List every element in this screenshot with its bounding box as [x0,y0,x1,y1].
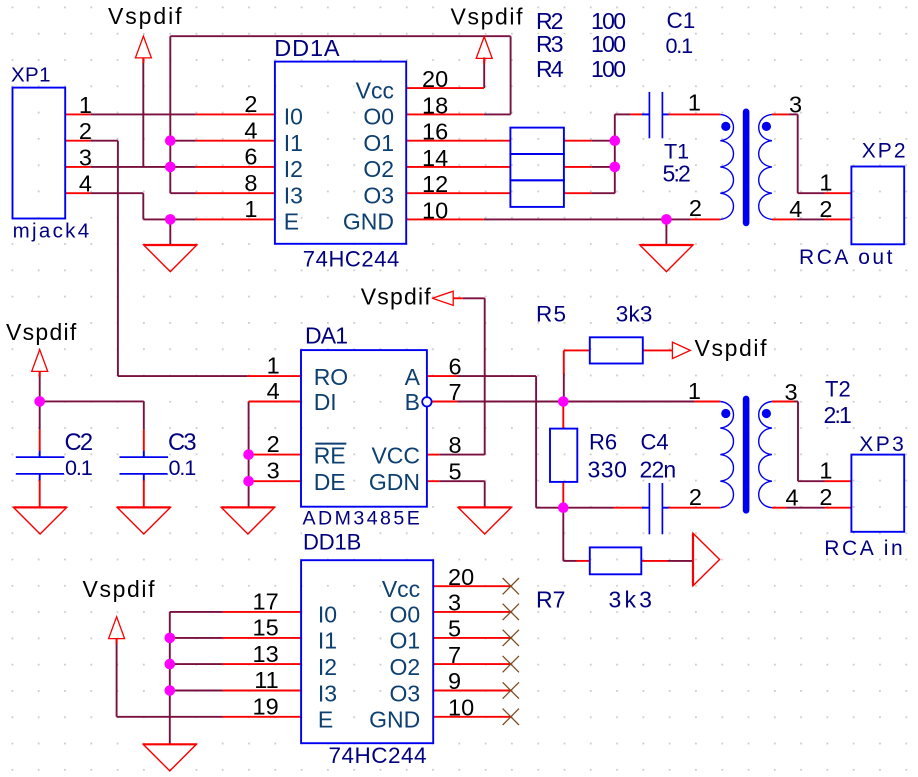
svg-text:22n: 22n [640,457,677,483]
svg-text:B: B [405,389,420,415]
svg-text:1: 1 [79,92,92,118]
svg-text:XP3: XP3 [859,433,904,456]
svg-text:ADM3485E: ADM3485E [303,507,420,529]
svg-text:C2: C2 [65,430,94,456]
svg-text:10: 10 [448,695,474,721]
svg-text:XP1: XP1 [11,63,51,86]
svg-text:I2: I2 [284,156,303,182]
svg-text:4: 4 [244,117,257,143]
svg-text:13: 13 [253,641,279,667]
svg-text:O3: O3 [363,182,394,208]
svg-text:C3: C3 [168,430,197,456]
svg-text:3: 3 [785,379,798,405]
svg-text:1: 1 [267,353,280,379]
svg-text:0.1: 0.1 [65,455,93,480]
svg-text:Vspdif: Vspdif [361,283,432,309]
svg-text:RCA out: RCA out [799,246,893,269]
svg-text:6: 6 [244,144,257,170]
svg-text:7: 7 [448,642,461,668]
svg-text:6: 6 [449,353,462,379]
svg-text:4: 4 [786,485,799,511]
svg-text:8: 8 [244,170,257,196]
svg-text:O1: O1 [363,130,394,156]
svg-text:R6: R6 [589,429,617,454]
svg-text:DE: DE [314,469,346,495]
svg-text:5:2: 5:2 [663,161,691,187]
svg-text:C1: C1 [667,8,696,33]
svg-text:19: 19 [253,694,279,720]
svg-text:R5: R5 [536,301,566,326]
svg-text:100: 100 [591,56,626,82]
svg-text:74HC244: 74HC244 [329,743,427,768]
svg-text:330: 330 [588,457,627,483]
svg-text:I2: I2 [318,654,337,680]
svg-text:I0: I0 [318,602,337,628]
svg-text:Vcc: Vcc [382,576,420,602]
svg-text:GDN: GDN [369,469,420,495]
svg-text:15: 15 [253,615,279,641]
svg-text:2:1: 2:1 [824,402,852,428]
svg-text:1: 1 [688,90,701,116]
svg-text:O1: O1 [390,628,421,654]
svg-text:2: 2 [689,195,702,221]
svg-text:O3: O3 [390,680,421,706]
svg-text:DA1: DA1 [305,322,348,348]
svg-text:R3: R3 [536,31,564,57]
svg-text:5: 5 [449,459,462,485]
svg-text:10: 10 [422,197,448,223]
svg-text:Vspdif: Vspdif [6,319,77,345]
svg-text:1: 1 [819,458,832,484]
svg-text:2: 2 [689,484,702,510]
svg-text:Vspdif: Vspdif [83,576,156,602]
svg-text:XP2: XP2 [862,140,906,163]
svg-text:DD1A: DD1A [274,35,340,61]
svg-text:E: E [284,209,299,235]
svg-text:Vspdif: Vspdif [695,335,768,361]
svg-text:12: 12 [422,171,448,197]
svg-text:2: 2 [819,484,832,510]
svg-text:14: 14 [422,145,448,171]
svg-text:1: 1 [244,196,257,222]
svg-text:RO: RO [314,364,349,390]
svg-text:C4: C4 [641,429,669,454]
svg-text:4: 4 [267,378,280,404]
svg-text:O0: O0 [390,602,421,628]
svg-text:3: 3 [267,458,280,484]
svg-text:74HC244: 74HC244 [303,247,400,272]
svg-text:11: 11 [254,667,278,693]
svg-text:DI: DI [314,389,337,415]
svg-text:1: 1 [688,378,701,404]
svg-text:GND: GND [369,707,420,733]
svg-text:3k3: 3k3 [616,301,653,326]
svg-text:9: 9 [448,668,461,694]
svg-text:16: 16 [422,119,448,145]
svg-text:RCA in: RCA in [824,537,903,560]
svg-text:I0: I0 [284,104,303,130]
svg-text:Vspdif: Vspdif [108,3,182,29]
svg-text:18: 18 [422,92,448,118]
svg-text:Vspdif: Vspdif [451,4,524,30]
svg-text:Vcc: Vcc [356,77,394,103]
svg-text:GND: GND [343,209,394,235]
svg-text:1: 1 [819,170,832,196]
svg-text:4: 4 [79,171,92,197]
svg-text:2: 2 [819,196,832,222]
svg-text:DD1B: DD1B [303,530,361,555]
svg-text:I1: I1 [318,628,337,654]
svg-text:T2: T2 [825,377,851,402]
svg-text:3: 3 [448,590,461,616]
svg-text:I3: I3 [284,182,303,208]
svg-text:20: 20 [422,66,448,92]
svg-text:2: 2 [244,91,257,117]
svg-text:RE: RE [314,442,346,468]
svg-text:0.1: 0.1 [666,33,694,58]
svg-text:E: E [318,707,333,733]
svg-text:3: 3 [789,91,802,117]
svg-text:5: 5 [448,616,461,642]
svg-text:2: 2 [79,118,92,144]
svg-text:8: 8 [449,432,462,458]
svg-text:20: 20 [448,564,474,590]
svg-text:A: A [405,364,421,390]
svg-text:3: 3 [79,144,92,170]
svg-text:O2: O2 [390,654,421,680]
svg-text:2: 2 [267,431,280,457]
svg-text:R4: R4 [536,56,564,82]
svg-text:I3: I3 [318,680,337,706]
svg-text:0.1: 0.1 [169,455,197,480]
svg-text:7: 7 [449,379,462,405]
svg-text:17: 17 [253,589,279,615]
svg-text:I1: I1 [284,130,303,156]
svg-text:O2: O2 [363,156,394,182]
svg-text:100: 100 [591,31,626,57]
svg-text:R7: R7 [536,587,565,613]
svg-text:3k3: 3k3 [609,587,652,613]
svg-text:VCC: VCC [371,442,420,468]
svg-text:O0: O0 [363,104,394,130]
svg-text:4: 4 [789,196,802,222]
